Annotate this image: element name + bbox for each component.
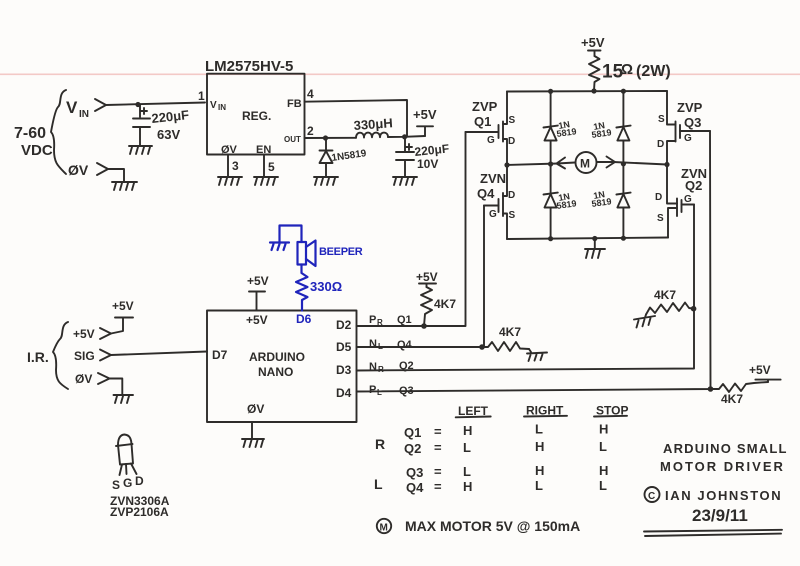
svg-text:+5V: +5V bbox=[413, 107, 437, 122]
svg-text:L: L bbox=[535, 478, 543, 493]
svg-text:D6: D6 bbox=[296, 312, 312, 326]
junction PR/R2 bbox=[421, 323, 427, 329]
capacitor C2 220uF 10V bbox=[404, 137, 406, 151]
svg-text:330μH: 330μH bbox=[353, 115, 393, 133]
brace IR bbox=[53, 322, 68, 389]
svg-text:10V: 10V bbox=[417, 157, 438, 171]
wire bottom rail bbox=[507, 238, 668, 240]
wire beeper to ground (blue) bbox=[280, 226, 302, 243]
junction OUT/D1 bbox=[323, 135, 328, 140]
wire VIN to regulator bbox=[106, 103, 205, 106]
svg-text:Q1: Q1 bbox=[397, 314, 412, 326]
ground R4 bbox=[634, 315, 655, 328]
connector pin VIN bbox=[95, 99, 106, 111]
svg-text:Q2: Q2 bbox=[404, 441, 421, 456]
svg-text:Q1: Q1 bbox=[474, 114, 491, 129]
pin 5 stub + ground bbox=[263, 155, 265, 177]
svg-text:+5V: +5V bbox=[73, 327, 95, 341]
svg-text:Q3: Q3 bbox=[399, 385, 414, 397]
ground IR bbox=[114, 395, 134, 403]
wire FB pin 4 bbox=[305, 100, 408, 137]
svg-text:4K7: 4K7 bbox=[499, 325, 521, 339]
wire top rail bbox=[507, 90, 667, 93]
svg-text:4: 4 bbox=[307, 87, 314, 101]
svg-text:+5V: +5V bbox=[247, 274, 269, 288]
svg-text:ZVP: ZVP bbox=[472, 99, 498, 114]
junction mid rail Q1/Q4 bbox=[504, 162, 509, 167]
ground R3 bbox=[527, 349, 547, 361]
power +5V (reg output) bbox=[417, 126, 433, 136]
svg-text:ARDUINO SMALL: ARDUINO SMALL bbox=[663, 441, 788, 456]
junction bottom rail D5 bbox=[621, 236, 626, 241]
svg-text:Q4: Q4 bbox=[406, 480, 424, 495]
resistor R6 330R beeper bbox=[296, 265, 308, 311]
wire mid rail right bbox=[614, 162, 668, 165]
svg-text:IAN JOHNSTON: IAN JOHNSTON bbox=[665, 488, 782, 503]
svg-text:ARDUINO: ARDUINO bbox=[249, 350, 305, 364]
svg-text:ZVP2106A: ZVP2106A bbox=[110, 505, 169, 519]
svg-text:L: L bbox=[377, 388, 382, 397]
svg-text:L: L bbox=[374, 476, 383, 492]
svg-text:L: L bbox=[599, 439, 607, 454]
svg-text:H: H bbox=[535, 439, 544, 454]
svg-text:D5: D5 bbox=[336, 340, 352, 354]
wire L1 to +5V node bbox=[388, 136, 425, 137]
svg-text:SIG: SIG bbox=[74, 349, 95, 363]
svg-text:R: R bbox=[377, 318, 383, 327]
ground below D1 bbox=[314, 177, 338, 185]
svg-text:ØV: ØV bbox=[247, 402, 264, 416]
diode D1 1N5819 bbox=[325, 138, 327, 150]
svg-text:(2W): (2W) bbox=[636, 63, 671, 80]
wire gate Q1 (PR) bbox=[357, 132, 466, 326]
svg-text:Q4: Q4 bbox=[397, 339, 413, 351]
diode D5 1N5819 lower-right bbox=[622, 164, 624, 194]
junction mid rail D2/D4 bbox=[548, 161, 553, 166]
resistor R2 4K7 bbox=[421, 287, 432, 326]
svg-text:4K7: 4K7 bbox=[721, 392, 743, 406]
svg-text:D: D bbox=[657, 139, 664, 150]
svg-text:+5V: +5V bbox=[581, 35, 605, 50]
resistor R1 15R 2W bbox=[589, 56, 600, 91]
svg-text:G: G bbox=[487, 135, 495, 146]
svg-text:R: R bbox=[378, 365, 384, 374]
svg-text:L: L bbox=[463, 464, 471, 479]
brace input bbox=[51, 90, 66, 174]
svg-text:H: H bbox=[463, 479, 472, 494]
junction PL/R5 bbox=[708, 386, 714, 392]
svg-text:L: L bbox=[463, 440, 471, 455]
svg-text:3: 3 bbox=[232, 159, 239, 173]
svg-text:REG.: REG. bbox=[242, 109, 271, 123]
svg-text:R: R bbox=[375, 436, 385, 452]
regulator U1 box bbox=[207, 74, 305, 155]
svg-text:1: 1 bbox=[198, 89, 205, 103]
diode D3 1N5819 upper-right bbox=[622, 91, 624, 126]
motor arrow right bbox=[597, 157, 615, 168]
svg-text:Q3: Q3 bbox=[684, 115, 701, 130]
wire mid rail left bbox=[507, 164, 558, 166]
svg-text:=: = bbox=[434, 424, 442, 439]
junction top rail D3 bbox=[621, 89, 626, 94]
svg-text:M: M bbox=[580, 157, 590, 171]
junction FB/C2/+5V bbox=[402, 134, 407, 139]
junction top rail R1 bbox=[591, 88, 596, 93]
resistor R3 4K7 bbox=[484, 342, 529, 351]
junction NL/R3 bbox=[479, 344, 485, 350]
resistor R4 4K7 bbox=[646, 303, 694, 315]
svg-text:H: H bbox=[599, 463, 608, 478]
svg-text:Q1: Q1 bbox=[404, 425, 421, 440]
svg-text:D4: D4 bbox=[336, 386, 352, 400]
svg-text:4K7: 4K7 bbox=[434, 297, 456, 311]
junction top rail D2 bbox=[548, 89, 553, 94]
svg-text:Ω: Ω bbox=[621, 61, 633, 78]
svg-text:BEEPER: BEEPER bbox=[319, 246, 363, 258]
svg-text:VDC: VDC bbox=[21, 142, 53, 159]
svg-text:V: V bbox=[210, 100, 217, 111]
svg-text:L: L bbox=[378, 342, 383, 351]
svg-text:=: = bbox=[434, 479, 442, 494]
diode D2 1N5819 upper-left bbox=[550, 91, 552, 126]
svg-text:NANO: NANO bbox=[258, 365, 293, 379]
svg-text:M: M bbox=[380, 523, 388, 534]
svg-text:ØV: ØV bbox=[68, 162, 89, 178]
svg-text:N: N bbox=[369, 361, 377, 373]
svg-text:S: S bbox=[509, 115, 516, 126]
ruled pink scan line bbox=[0, 74, 800, 76]
svg-text:MAX MOTOR 5V @ 150mA: MAX MOTOR 5V @ 150mA bbox=[405, 518, 580, 534]
motor M1 bbox=[576, 152, 597, 173]
svg-text:LM2575HV-5: LM2575HV-5 bbox=[205, 58, 293, 75]
svg-text:ZVP: ZVP bbox=[677, 100, 703, 115]
svg-text:D: D bbox=[135, 474, 144, 488]
junction NR/R4 bbox=[691, 306, 697, 312]
junction mid rail Q3/Q2 bbox=[664, 162, 669, 167]
svg-text:63V: 63V bbox=[157, 127, 180, 142]
wire OUT pin 2 bbox=[305, 137, 357, 139]
svg-text:S: S bbox=[657, 213, 664, 224]
junction bottom rail D4 bbox=[548, 236, 553, 241]
wire 0V to ground bbox=[108, 169, 124, 181]
arduino U2 box bbox=[207, 311, 357, 423]
motor arrow left bbox=[557, 158, 576, 169]
svg-text:+5V: +5V bbox=[246, 313, 268, 327]
resistor R5 4K7 bbox=[711, 382, 769, 392]
svg-text:OUT: OUT bbox=[284, 135, 301, 144]
svg-text:P: P bbox=[369, 314, 376, 326]
svg-text:C: C bbox=[648, 491, 655, 502]
svg-text:MOTOR DRIVER: MOTOR DRIVER bbox=[660, 459, 785, 474]
svg-text:+5V: +5V bbox=[749, 363, 771, 377]
svg-text:Q3: Q3 bbox=[406, 465, 423, 480]
svg-text:N: N bbox=[369, 338, 377, 350]
svg-text:L: L bbox=[535, 422, 543, 437]
svg-text:2: 2 bbox=[307, 124, 314, 138]
svg-text:D7: D7 bbox=[212, 348, 228, 362]
svg-text:H: H bbox=[599, 422, 608, 437]
svg-text:FB: FB bbox=[287, 98, 302, 110]
svg-text:G: G bbox=[489, 209, 497, 220]
svg-text:+5V: +5V bbox=[112, 299, 134, 313]
svg-text:V: V bbox=[66, 98, 78, 117]
svg-text:G: G bbox=[684, 194, 692, 205]
svg-text:ØV: ØV bbox=[221, 144, 238, 156]
svg-text:D3: D3 bbox=[336, 363, 352, 377]
svg-text:D: D bbox=[508, 190, 515, 201]
svg-text:4K7: 4K7 bbox=[654, 288, 676, 302]
ground arduino bbox=[242, 439, 264, 447]
junction bottom rail ground bbox=[592, 236, 597, 241]
motor note bbox=[377, 519, 391, 533]
ground below C1 bbox=[129, 146, 152, 154]
pin 3 stub + ground bbox=[227, 155, 229, 177]
svg-text:IN: IN bbox=[79, 109, 89, 120]
svg-text:G: G bbox=[684, 133, 692, 144]
svg-text:ØV: ØV bbox=[75, 372, 92, 386]
capacitor C1 220uF 63V bbox=[139, 105, 141, 117]
svg-text:IN: IN bbox=[218, 103, 226, 112]
svg-text:Q4: Q4 bbox=[477, 186, 495, 201]
svg-text:S: S bbox=[509, 210, 516, 221]
svg-text:=: = bbox=[434, 464, 442, 479]
svg-text:+5V: +5V bbox=[416, 270, 438, 284]
junction C1/VIN bbox=[135, 102, 140, 107]
svg-text:D: D bbox=[655, 192, 662, 203]
junction mid rail D3/D5 bbox=[621, 161, 626, 166]
svg-text:=: = bbox=[434, 440, 442, 455]
svg-text:D2: D2 bbox=[336, 318, 352, 332]
svg-text:5: 5 bbox=[268, 160, 275, 174]
svg-text:D: D bbox=[508, 136, 515, 147]
diode D4 1N5819 lower-left bbox=[550, 164, 552, 194]
ground bridge bbox=[594, 239, 596, 249]
svg-text:7-60: 7-60 bbox=[14, 125, 46, 142]
wire SIG to D7 bbox=[111, 352, 207, 356]
beeper LS1 bbox=[298, 242, 307, 265]
connector pin 0V bbox=[97, 163, 108, 175]
svg-text:S: S bbox=[112, 478, 120, 492]
svg-text:330Ω: 330Ω bbox=[310, 279, 342, 294]
ground input 0V bbox=[112, 182, 137, 190]
wire gate Q2 (NR) bbox=[357, 205, 695, 371]
transistor package drawing bbox=[118, 435, 132, 446]
svg-text:Q2: Q2 bbox=[685, 178, 702, 193]
svg-text:H: H bbox=[535, 463, 544, 478]
svg-text:Q2: Q2 bbox=[399, 360, 414, 372]
svg-text:23/9/11: 23/9/11 bbox=[692, 506, 748, 525]
svg-text:I.R.: I.R. bbox=[27, 349, 49, 365]
ground below C2 bbox=[393, 177, 417, 185]
svg-text:P: P bbox=[369, 384, 376, 396]
svg-text:L: L bbox=[599, 478, 607, 493]
svg-text:S: S bbox=[658, 114, 665, 125]
svg-text:H: H bbox=[463, 423, 472, 438]
svg-text:G: G bbox=[123, 476, 132, 490]
wire gate Q3 (PL) bbox=[357, 131, 711, 392]
ground beeper (blue) bbox=[270, 243, 289, 251]
wire gate Q4 (NL) bbox=[357, 206, 485, 348]
svg-text:ZVN: ZVN bbox=[480, 171, 506, 186]
power +5V pullup R5 bbox=[755, 380, 780, 382]
